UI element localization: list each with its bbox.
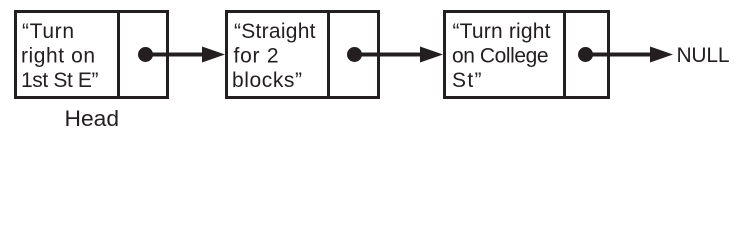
svg-text:Head: Head (65, 106, 120, 131)
svg-text:“Turn: “Turn (22, 20, 74, 43)
svg-text:“Straight: “Straight (234, 20, 316, 43)
svg-text:St”: St” (452, 69, 482, 92)
svg-text:for 2: for 2 (234, 45, 279, 68)
svg-text:right on: right on (21, 45, 95, 68)
svg-text:blocks”: blocks” (232, 69, 302, 92)
svg-text:NULL: NULL (677, 44, 730, 67)
svg-text:1st St E”: 1st St E” (21, 69, 99, 92)
svg-text:on College: on College (452, 45, 549, 68)
svg-text:“Turn right: “Turn right (453, 20, 551, 43)
